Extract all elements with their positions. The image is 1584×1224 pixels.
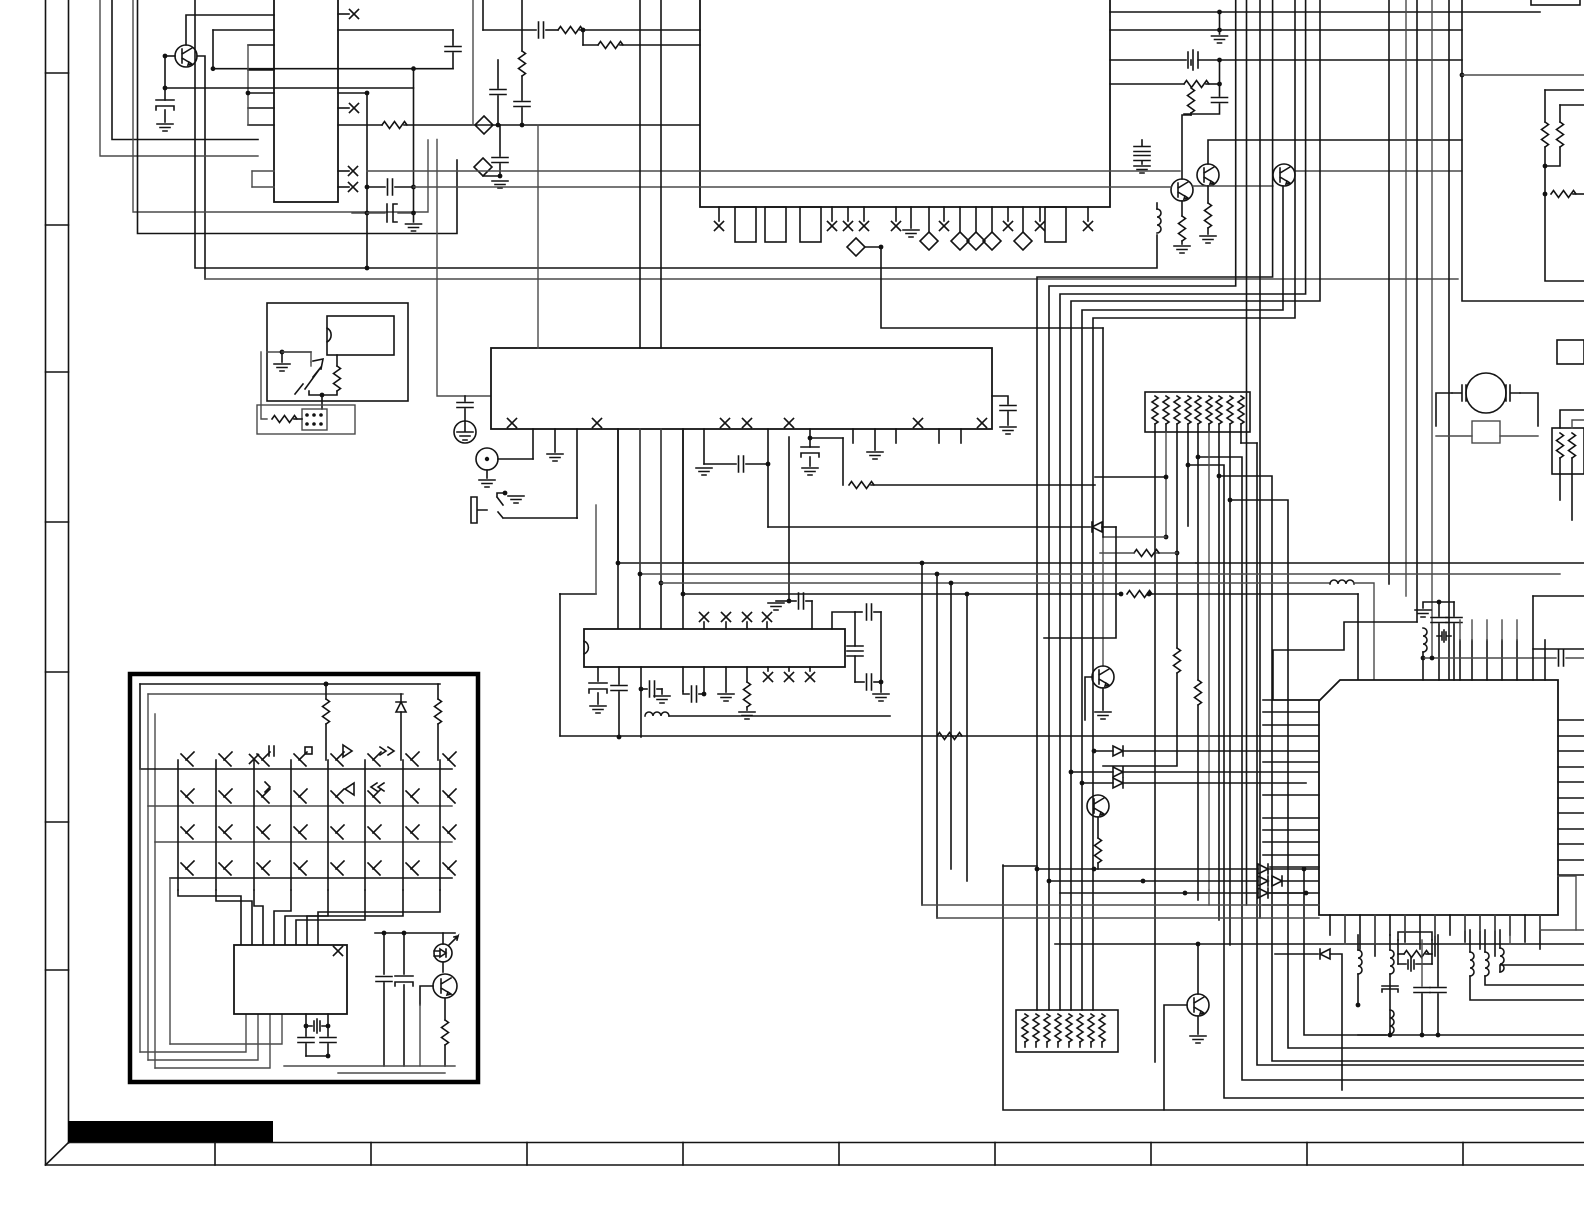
IC301 pin	[682, 667, 684, 691]
IC401 bottom pin	[1374, 915, 1376, 956]
icon next	[265, 782, 270, 792]
resistor R314	[1127, 591, 1152, 598]
IC101 pin stub	[975, 207, 977, 232]
junction	[1430, 656, 1435, 661]
wire IC201 to IC301	[617, 429, 619, 629]
capacitor C407	[1430, 988, 1446, 993]
wire	[404, 124, 498, 126]
diode D306b	[1272, 876, 1282, 886]
diode D307	[1258, 888, 1268, 898]
capacitor C110	[1134, 147, 1150, 152]
wire	[657, 688, 662, 690]
wire	[164, 110, 166, 122]
wire bus long	[560, 735, 1319, 737]
icon rew	[371, 783, 384, 791]
junction	[324, 682, 329, 687]
wire	[582, 30, 584, 45]
junction	[324, 682, 329, 687]
junction	[787, 599, 792, 604]
wire left pin rail	[247, 45, 249, 125]
crystal X101	[1188, 50, 1198, 70]
border zone tick	[46, 371, 69, 373]
wire	[483, 29, 536, 31]
crystal X501	[306, 1019, 328, 1033]
border zone tick	[682, 1143, 684, 1166]
IC201 pin	[532, 429, 534, 459]
wire	[305, 1026, 307, 1036]
capacitor	[445, 47, 461, 52]
IC601 left pin	[248, 124, 274, 126]
wire row wrap	[139, 684, 141, 769]
wire	[576, 517, 578, 519]
border zone tick	[46, 671, 69, 673]
junction	[1217, 10, 1222, 15]
key switch S32	[219, 825, 232, 839]
wire	[336, 355, 338, 366]
capacitor C102	[539, 22, 544, 38]
wire	[1101, 1042, 1103, 1047]
diode D501	[396, 702, 406, 712]
resistor R313	[1134, 550, 1159, 557]
junction	[411, 66, 416, 71]
IC101 pin pad	[735, 207, 756, 242]
junction	[246, 91, 251, 96]
wire	[660, 429, 662, 583]
resistor R503	[442, 1020, 449, 1045]
test point	[983, 232, 1001, 250]
resistor array RA301	[1145, 392, 1250, 432]
capacitor C606	[514, 102, 530, 107]
key switch S12	[219, 752, 232, 766]
test point	[951, 232, 969, 250]
wire	[661, 689, 663, 694]
wire	[1436, 393, 1452, 426]
IC601 right pin	[338, 107, 349, 109]
wire	[1398, 932, 1432, 940]
wire	[1197, 432, 1199, 457]
wire rail	[284, 1065, 455, 1067]
IC101 pin stub	[991, 207, 993, 232]
IC401 right pin	[1558, 797, 1584, 799]
wire key column	[177, 760, 179, 890]
wire	[1357, 594, 1359, 680]
wire column to IC	[285, 890, 328, 945]
no-connect	[1084, 222, 1093, 231]
key switch S34	[294, 825, 307, 839]
wire	[1206, 83, 1220, 85]
junction	[304, 1024, 309, 1029]
wire	[1024, 1042, 1026, 1047]
wire box outline	[1003, 865, 1584, 1110]
IC301 pin stub	[703, 622, 705, 629]
key switch S46	[368, 861, 381, 875]
contact dot	[312, 422, 316, 426]
no-connect	[334, 947, 343, 956]
wire long	[683, 593, 1121, 595]
resistor R108	[1184, 81, 1209, 88]
wire	[1453, 602, 1455, 616]
IC301 pin stub	[746, 622, 748, 629]
wire	[325, 724, 327, 760]
capacitor C406	[1414, 988, 1430, 993]
IC IC101 body	[700, 0, 1110, 207]
wire RA301 out	[1154, 432, 1156, 1062]
wire	[1071, 771, 1113, 773]
IC301 pin stub	[809, 667, 811, 671]
wire bus	[618, 429, 1196, 563]
border zone tick	[370, 1143, 372, 1166]
wire	[442, 933, 444, 944]
resistor in RA302	[1033, 1014, 1039, 1042]
crystal X402	[1398, 957, 1432, 971]
wire	[618, 692, 620, 737]
wire	[213, 29, 274, 31]
test point	[1014, 232, 1032, 250]
junction	[496, 123, 501, 128]
border corner diagonal	[46, 1143, 69, 1166]
wire bus stair	[1082, 186, 1283, 1010]
wire rail x413	[413, 69, 415, 222]
transistor Q401	[1187, 994, 1209, 1016]
wire	[854, 656, 856, 682]
capacitor C311	[799, 593, 804, 609]
IC IC201 body	[491, 348, 992, 429]
wire	[497, 60, 499, 88]
wire	[499, 124, 501, 126]
wire key row 2	[148, 805, 452, 807]
key switch S47	[406, 861, 419, 875]
no-connect	[828, 222, 837, 231]
wire	[746, 463, 768, 465]
junction	[1302, 867, 1307, 872]
IC201 pin	[767, 429, 769, 527]
wire	[1198, 59, 1220, 61]
wire	[1422, 652, 1424, 658]
wire ext	[1209, 573, 1560, 575]
IC IC401 body	[1319, 680, 1558, 915]
IC401 right pin	[1558, 750, 1584, 752]
junction	[1164, 535, 1169, 540]
ground	[1000, 427, 1016, 434]
wire	[922, 904, 1209, 906]
wire	[1500, 965, 1584, 972]
wire	[155, 1014, 270, 1068]
wire column to IC	[274, 890, 291, 945]
wire	[1095, 476, 1166, 478]
resistor R312	[1195, 680, 1202, 705]
resistor R316	[1095, 838, 1102, 863]
icon pause	[269, 746, 274, 756]
wire	[1437, 935, 1439, 986]
junction	[382, 931, 387, 936]
junction	[365, 185, 370, 190]
wire	[1208, 424, 1210, 432]
IC401 right pin	[1558, 828, 1584, 830]
wire	[537, 125, 539, 348]
IC601 right pin	[338, 13, 349, 15]
no-connect	[785, 419, 794, 428]
resistor in RA302	[1088, 1014, 1094, 1042]
IC401 top pin ext	[1459, 620, 1461, 640]
no-connect	[743, 419, 752, 428]
wire	[1123, 750, 1319, 752]
test point TP602	[474, 158, 492, 176]
IC401 top pin ext	[1471, 620, 1473, 640]
ground	[802, 468, 818, 475]
key switch S44	[294, 861, 307, 875]
diode D303	[1113, 767, 1123, 777]
wire	[776, 600, 789, 602]
wire	[483, 175, 500, 177]
capacitor C405	[1382, 986, 1398, 992]
wire	[499, 125, 501, 156]
wire	[294, 418, 302, 420]
wire	[1219, 12, 1221, 34]
wire box right	[1462, 0, 1584, 301]
wire	[1085, 677, 1092, 720]
IC401 bottom pin	[1509, 915, 1511, 935]
wire	[112, 0, 258, 140]
wire	[937, 917, 1319, 919]
wire	[1330, 954, 1342, 1090]
wire	[1154, 424, 1156, 432]
wire	[699, 693, 704, 695]
IC401 left pin	[1270, 892, 1319, 894]
ground	[1212, 36, 1228, 43]
inductor L402	[1358, 950, 1362, 974]
ground	[479, 480, 495, 487]
no-connect	[743, 613, 752, 622]
wire	[580, 29, 700, 31]
wire	[1190, 60, 1192, 65]
wire	[1187, 432, 1189, 465]
resistor R110	[1179, 216, 1186, 241]
key switch S14	[294, 752, 307, 766]
IC101 right pin long	[1110, 11, 1540, 13]
resistor in RA302	[1055, 1014, 1061, 1042]
no-connect	[1036, 222, 1045, 231]
resistor in RA302	[1022, 1014, 1028, 1042]
wire column to IC	[318, 890, 440, 945]
wire	[444, 998, 446, 1020]
wire	[1103, 537, 1166, 666]
wire	[1439, 601, 1454, 603]
no-connect	[785, 673, 794, 682]
inductor L312	[1448, 866, 1472, 870]
resistor R402	[1404, 951, 1429, 958]
junction	[659, 581, 664, 586]
ground	[406, 224, 422, 231]
resonator right plates	[1506, 385, 1520, 401]
IC101 pin stub	[959, 207, 961, 232]
wire IC201 to IC301	[639, 429, 641, 629]
junction	[326, 1054, 331, 1059]
wire ext	[1196, 562, 1584, 564]
key switch S38	[443, 825, 456, 839]
wire	[1479, 915, 1481, 930]
wire	[261, 352, 267, 419]
wire	[1035, 1042, 1037, 1047]
border zone tick	[46, 521, 69, 523]
wire	[267, 351, 311, 353]
wire	[1532, 649, 1534, 680]
diode D401	[1320, 949, 1330, 959]
wire bus stair	[1093, 0, 1295, 1010]
junction	[965, 592, 970, 597]
wire	[1218, 476, 1220, 920]
wire	[1533, 596, 1584, 649]
connector body	[302, 409, 327, 430]
wire	[305, 1044, 307, 1056]
electrolytic capacitor	[156, 100, 174, 110]
ground	[696, 468, 712, 475]
wire	[992, 396, 1008, 404]
wire bus	[1431, 0, 1433, 658]
wire bus	[1388, 0, 1390, 584]
resistor in RA302	[1077, 1014, 1083, 1042]
IC401 left pin	[1263, 841, 1319, 843]
no-connect	[1004, 222, 1013, 231]
diode D306	[1258, 876, 1268, 886]
key switch S28	[443, 789, 456, 803]
IC601 left pin	[248, 69, 274, 71]
wire column to IC	[254, 890, 263, 945]
wire	[1423, 602, 1439, 608]
IC101 pin pad	[800, 207, 821, 242]
wire	[1220, 59, 1463, 61]
junction	[365, 91, 370, 96]
wire	[1431, 940, 1433, 964]
key switch S37	[406, 825, 419, 839]
wire row drop	[154, 842, 156, 1068]
transistor Q102	[1197, 164, 1219, 186]
wire	[1434, 915, 1436, 935]
junction	[1543, 164, 1548, 169]
junction	[1119, 592, 1124, 597]
wire	[1068, 1042, 1070, 1047]
wire to IC201	[437, 140, 491, 397]
capacitor C603	[388, 179, 393, 195]
junction	[766, 462, 771, 467]
wire bus U4	[205, 278, 1458, 280]
icon stop	[305, 747, 312, 754]
IC401 right pin	[1558, 859, 1584, 861]
wire	[444, 1045, 446, 1066]
contact dot	[305, 413, 309, 417]
wire long	[1055, 943, 1584, 945]
wire	[546, 29, 558, 31]
wire	[1389, 974, 1391, 1035]
wire	[420, 986, 433, 1005]
key switch S24	[294, 789, 307, 803]
wire bus U3	[195, 0, 1157, 268]
IC401 right pin	[1558, 781, 1584, 783]
wire	[1229, 424, 1231, 432]
IC601 left pin	[248, 92, 274, 94]
wire IC201 to IC301	[682, 429, 684, 629]
wire long net	[367, 170, 1180, 172]
IC101 pin pad	[765, 207, 786, 242]
IC401 right pin	[1558, 735, 1584, 737]
inductor	[1485, 952, 1489, 976]
ground	[873, 694, 889, 701]
wire	[1207, 228, 1209, 234]
wire	[682, 429, 684, 594]
wire	[855, 611, 862, 613]
IC401 left pin	[1263, 724, 1319, 726]
resistor in RA301	[1195, 396, 1201, 424]
wire	[1422, 658, 1424, 680]
electrolytic capacitor C204	[801, 447, 819, 457]
junction	[1437, 600, 1442, 605]
capacitor C305	[692, 686, 697, 702]
resistor block	[1552, 428, 1584, 474]
junction	[280, 350, 285, 355]
wire vdd rail	[375, 932, 455, 934]
wire	[1082, 782, 1113, 784]
IC401 bottom pin	[1344, 915, 1346, 942]
wire	[1103, 673, 1177, 766]
trimmer capacitor CT301	[847, 646, 863, 656]
junction	[616, 561, 621, 566]
key switch S31	[181, 825, 194, 839]
junction	[702, 692, 707, 697]
wire	[1520, 393, 1538, 426]
wire	[327, 1026, 329, 1036]
transistor Q302	[1087, 795, 1109, 817]
wire	[1275, 953, 1318, 955]
connector box	[1557, 340, 1584, 364]
IC201 pin	[703, 429, 705, 464]
wire fan	[1304, 869, 1584, 1035]
wire	[1184, 104, 1220, 114]
resistor	[334, 366, 341, 391]
wire	[321, 395, 323, 409]
IC401 left pin	[1263, 854, 1319, 856]
wire	[437, 724, 439, 760]
resistor in RA301	[1163, 396, 1169, 424]
wire	[641, 688, 647, 690]
junction	[211, 66, 216, 71]
wire	[1164, 1005, 1187, 1110]
ground	[903, 230, 919, 237]
wire key column	[290, 760, 292, 890]
IC401 bottom pin	[1524, 915, 1526, 942]
wire bus stair	[1060, 0, 1306, 1010]
wire bus to IC401	[1273, 622, 1417, 700]
junction	[1421, 656, 1426, 661]
IC301 pin	[640, 667, 642, 737]
wire	[1097, 863, 1099, 869]
IC201 pin	[852, 429, 854, 443]
ground	[654, 696, 670, 703]
junction	[808, 436, 813, 441]
wire	[521, 0, 523, 51]
resistor R102	[558, 27, 583, 34]
wire	[1187, 424, 1189, 432]
no-connect	[722, 613, 731, 622]
IC101 pin stub	[847, 207, 849, 221]
resistor R802	[1557, 122, 1564, 147]
wire	[1389, 1032, 1391, 1035]
wire row wrap	[154, 714, 156, 842]
wire	[383, 933, 385, 974]
wire bus	[1416, 0, 1418, 622]
ground	[1174, 246, 1190, 253]
wire bus drop	[936, 574, 938, 918]
no-connect	[914, 419, 923, 428]
IC401 right pin	[1558, 719, 1584, 721]
